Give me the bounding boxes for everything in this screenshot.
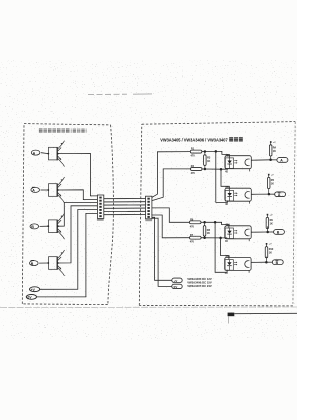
svg-text:470: 470 xyxy=(191,172,196,175)
wire to output oval A xyxy=(271,159,277,161)
wire n8 to U1D anode xyxy=(221,238,229,259)
wire oval A- to Q2 xyxy=(41,189,49,191)
wire U1D output xyxy=(251,261,266,263)
wire n4 to U1B anode xyxy=(221,169,229,190)
wire node2 to U1A cathode xyxy=(205,168,228,171)
svg-text:43A: 43A xyxy=(225,223,230,226)
transistor pair Q4 xyxy=(47,250,64,276)
node dot n5 xyxy=(203,221,206,224)
svg-text:1K: 1K xyxy=(269,252,272,255)
wire J2 pin2 to R2 xyxy=(152,169,191,201)
right dashed enclosure (interface card) xyxy=(139,122,295,306)
node dot n3 xyxy=(215,150,218,153)
right box title VW3A3405/06/07 接口卡 xyxy=(160,137,243,142)
wire oval A to Q1 xyxy=(41,152,48,155)
resistor R2 xyxy=(190,165,202,175)
node dot U1D out xyxy=(265,261,268,264)
node dot U1B out xyxy=(268,193,271,196)
svg-text:B: B xyxy=(31,262,34,266)
connector J2 xyxy=(145,196,152,221)
wire oval B- to Q4 xyxy=(39,262,48,264)
wire node6 to U1C cathode xyxy=(205,237,228,239)
svg-text:B: B xyxy=(31,225,34,229)
wire J2 pin4 to R6 xyxy=(152,208,190,222)
wire R7 to node6 xyxy=(201,237,205,239)
svg-text:1K: 1K xyxy=(207,232,210,235)
svg-text:470: 470 xyxy=(190,225,195,228)
opto-coupler U1B xyxy=(225,186,251,205)
svg-text:470: 470 xyxy=(190,241,195,244)
scan speckle noise xyxy=(0,60,297,340)
svg-text:1K: 1K xyxy=(270,222,273,225)
resistor R8 bridge xyxy=(203,222,210,238)
wire Q3 output to connector J1 pin3 xyxy=(58,203,97,227)
output terminal A xyxy=(277,158,288,163)
wire to output oval B- xyxy=(266,261,272,263)
wire U1C output xyxy=(251,231,268,233)
pull-up resistor R10 xyxy=(265,243,274,262)
svg-text:1K: 1K xyxy=(273,150,276,153)
wire J2 to +V terminal xyxy=(152,217,172,280)
node dot U1C out xyxy=(266,231,269,234)
encoder channel terminal B- xyxy=(30,260,39,265)
card supply terminal +V xyxy=(172,278,182,283)
encoder supply terminal 0V xyxy=(26,295,36,300)
resistor R3 bridge xyxy=(204,152,211,170)
U1B emitter stub xyxy=(248,201,250,203)
card supply terminal 0V xyxy=(172,284,182,289)
pull-up resistor R4 xyxy=(269,141,276,160)
wire J2 pin1 to R1 xyxy=(152,152,190,198)
transistor pair Q2 xyxy=(47,177,64,203)
resistor R6 xyxy=(189,218,201,228)
wire R2 to node2 xyxy=(202,168,205,170)
U1A emitter stub xyxy=(249,169,251,172)
wire to output oval B xyxy=(268,231,274,233)
node dot n7 xyxy=(214,221,217,224)
output terminal B- xyxy=(272,260,283,265)
left box title 桥式输出编码器(差动型) as glyph blobs xyxy=(39,128,87,132)
output terminal A- xyxy=(275,192,286,197)
wire oval B to Q3 xyxy=(40,225,49,227)
wire Q1 output to connector J1 pin1 xyxy=(58,153,97,196)
pull-up resistor R5 xyxy=(267,174,274,194)
transistor pair Q1 xyxy=(47,141,64,167)
node dot n4 xyxy=(220,168,223,171)
output terminal B xyxy=(274,230,285,235)
svg-text:A: A xyxy=(33,151,36,155)
svg-text:VW3A3407:DC 24V: VW3A3407:DC 24V xyxy=(187,284,212,288)
pull-up resistor R9 xyxy=(266,214,273,232)
node dot n6 xyxy=(203,237,206,240)
encoder channel terminal A xyxy=(31,150,40,155)
connector J1 xyxy=(97,195,104,221)
wire R1 to node1 xyxy=(202,151,205,153)
wire Q4 output to connector J1 pin4 xyxy=(58,206,97,263)
node dot n8 xyxy=(219,237,222,240)
encoder supply terminal +V xyxy=(29,287,39,292)
resistor R1 xyxy=(190,148,202,158)
cable wires between J1 and J2 xyxy=(104,199,146,215)
node dot n2 xyxy=(204,168,207,171)
svg-text:42A: 42A xyxy=(225,186,230,189)
svg-text:43A: 43A xyxy=(225,154,230,157)
wire 0V terminal to connector J1 pin6 xyxy=(37,213,97,297)
page separator dashed line xyxy=(0,306,297,309)
svg-text:42A: 42A xyxy=(225,255,230,258)
opto-coupler U1A xyxy=(225,154,251,173)
node dot n1 xyxy=(204,150,207,153)
opto-coupler U1C xyxy=(225,223,251,243)
wire n7 to U1D cathode xyxy=(215,222,227,272)
wire J2 pin6 to R7 xyxy=(152,215,190,238)
wire J2 to 0V terminal xyxy=(152,218,172,286)
wire Q2 output to connector J1 pin2 xyxy=(58,190,97,200)
supply voltage note text xyxy=(187,277,212,288)
svg-text:4D: 4D xyxy=(225,272,228,275)
wire U1A output xyxy=(251,159,270,161)
svg-text:470: 470 xyxy=(191,155,196,158)
node dot U1A out xyxy=(269,159,272,162)
wire R6 to node5 xyxy=(201,221,205,223)
next figure corner mark xyxy=(228,313,297,324)
U1D emitter stub xyxy=(248,270,250,272)
wire node1 to U1A anode xyxy=(205,151,229,158)
wire to output oval A- xyxy=(269,193,275,195)
svg-text:1K: 1K xyxy=(271,182,274,185)
svg-text:4D: 4D xyxy=(225,240,228,243)
svg-text:4D: 4D xyxy=(225,170,228,173)
opto-coupler U1D xyxy=(225,255,251,275)
wire U1B output xyxy=(251,193,269,195)
encoder channel terminal B xyxy=(30,224,39,229)
wire n3 to U1B cathode xyxy=(216,151,228,202)
resistor R7 xyxy=(190,234,202,244)
U1C emitter stub xyxy=(248,239,250,241)
encoder channel terminal A- xyxy=(31,187,40,192)
transistor pair Q3 xyxy=(47,213,64,239)
wire node5 to U1C anode xyxy=(205,222,229,228)
stray scan mark top xyxy=(88,93,152,96)
svg-text:1K: 1K xyxy=(207,160,210,163)
left dashed enclosure (encoder) xyxy=(22,124,113,305)
svg-text:A: A xyxy=(32,189,35,193)
svg-text:4D: 4D xyxy=(225,203,228,206)
wire +V terminal to connector J1 pin5 xyxy=(40,210,98,290)
svg-text:VW3A3405 / VW3A3406 / VW3A3407: VW3A3405 / VW3A3406 / VW3A3407 xyxy=(160,137,228,142)
